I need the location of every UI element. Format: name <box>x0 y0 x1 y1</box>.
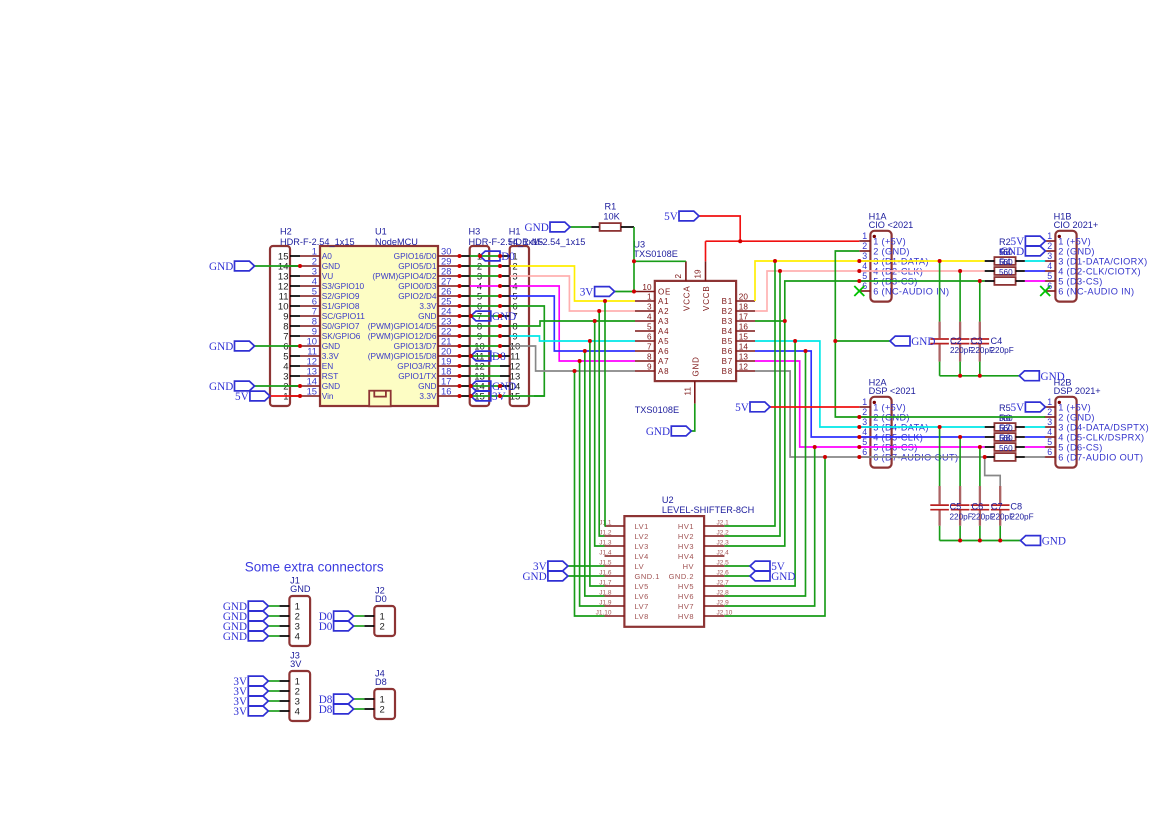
svg-text:GND.1: GND.1 <box>635 572 660 581</box>
svg-text:560: 560 <box>999 258 1013 267</box>
wire tap D2 to J2.2 <box>724 271 780 536</box>
power label 3V U2 <box>533 561 568 573</box>
svg-text:CIO <2021: CIO <2021 <box>869 220 914 230</box>
wire net D2 pink <box>510 276 635 311</box>
svg-text:7: 7 <box>647 343 652 352</box>
svg-text:3.3V: 3.3V <box>419 391 437 401</box>
svg-text:HV6: HV6 <box>678 592 694 601</box>
svg-text:GND: GND <box>418 381 436 391</box>
svg-text:3V: 3V <box>233 706 247 718</box>
svg-text:GPIO16/D0: GPIO16/D0 <box>394 251 437 261</box>
svg-text:HDR-F-2.54_1x15: HDR-F-2.54_1x15 <box>280 237 355 247</box>
svg-text:4 (D2-CLK/CIOTX): 4 (D2-CLK/CIOTX) <box>1058 266 1141 276</box>
svg-text:NodeMCU: NodeMCU <box>375 237 418 247</box>
svg-text:560: 560 <box>999 268 1013 277</box>
wire 3V to OE <box>615 291 635 293</box>
IC U1 NodeMCU pin text <box>307 227 452 402</box>
wire tap D1 to J2.1 <box>724 261 775 526</box>
power label 5V H2B <box>1011 402 1046 414</box>
connector H3 body <box>460 246 490 406</box>
svg-text:10: 10 <box>642 283 652 292</box>
power label 5V H2A <box>735 402 770 414</box>
wire tap D4 to J2.7 <box>724 341 795 586</box>
svg-text:H1: H1 <box>509 227 521 237</box>
wire tap D6 to J2.9 <box>724 447 814 606</box>
svg-text:HV7: HV7 <box>678 602 694 611</box>
svg-text:S0/GPIO7: S0/GPIO7 <box>322 321 360 331</box>
wires R5-R8 leads <box>985 427 1025 457</box>
svg-text:5 (D6-CS): 5 (D6-CS) <box>1058 442 1103 452</box>
svg-text:2: 2 <box>1047 241 1052 251</box>
connector H2A text <box>862 377 958 462</box>
power label GND U3 <box>646 426 691 438</box>
svg-text:OE: OE <box>658 288 671 297</box>
svg-text:6 (NC-AUDIO IN): 6 (NC-AUDIO IN) <box>1058 286 1134 296</box>
svg-text:5V: 5V <box>735 402 749 414</box>
wire net D3 right green <box>755 281 985 321</box>
svg-text:D0: D0 <box>319 621 333 633</box>
power label 5V H2-1 <box>235 391 270 403</box>
connector H1 body <box>500 246 529 406</box>
svg-text:B2: B2 <box>722 307 733 316</box>
svg-text:GPIO2/D4: GPIO2/D4 <box>398 291 437 301</box>
svg-text:6 (D7-AUDIO OUT): 6 (D7-AUDIO OUT) <box>1058 452 1143 462</box>
wire tap A1 to J1.1 <box>604 301 607 526</box>
svg-text:C6: C6 <box>972 501 984 511</box>
connector H3 pin numbers <box>469 227 544 403</box>
labels 3V J3 <box>233 676 268 718</box>
connector H2 body <box>270 246 300 406</box>
svg-text:U3: U3 <box>633 240 645 250</box>
svg-text:C7: C7 <box>991 501 1003 511</box>
svg-text:EN: EN <box>322 361 334 371</box>
resistors R5 R6 R7 R8 bodies <box>994 423 1015 461</box>
svg-text:VU: VU <box>322 271 334 281</box>
wire net D1 yellow <box>510 266 635 301</box>
svg-text:LV2: LV2 <box>635 532 649 541</box>
wire net GND H1A to H2A <box>835 251 1045 417</box>
wire tap D5 to J2.8 <box>724 351 805 596</box>
svg-text:D8: D8 <box>375 677 387 687</box>
svg-text:14: 14 <box>739 343 749 352</box>
svg-text:GPIO3/RX: GPIO3/RX <box>397 361 437 371</box>
svg-text:HV: HV <box>683 562 694 571</box>
svg-text:TXS0108E: TXS0108E <box>633 249 677 259</box>
svg-text:J1.4: J1.4 <box>599 550 612 557</box>
wire net D1 right yellow <box>755 261 985 301</box>
svg-text:GND: GND <box>911 336 935 348</box>
svg-text:R5: R5 <box>999 403 1011 413</box>
svg-text:16: 16 <box>739 323 749 332</box>
svg-text:1: 1 <box>1047 231 1052 241</box>
wire net D4 right cyan <box>755 341 985 427</box>
svg-text:B8: B8 <box>722 367 733 376</box>
wire GND U2 <box>568 575 605 577</box>
svg-text:A8: A8 <box>658 367 669 376</box>
wires R2-R4 to H1B <box>1025 261 1045 281</box>
wires C5-C8 verticals <box>940 427 1001 541</box>
svg-text:15: 15 <box>739 333 749 342</box>
svg-text:C4: C4 <box>991 336 1003 346</box>
svg-text:560: 560 <box>999 424 1013 433</box>
svg-text:5: 5 <box>1047 437 1052 447</box>
labels D0 J2 <box>319 611 354 633</box>
wire net D5 green <box>510 321 635 326</box>
svg-text:10K: 10K <box>603 212 620 222</box>
title text <box>245 560 384 575</box>
connector J4 body <box>364 689 395 719</box>
connector H1B body <box>1044 231 1076 302</box>
resistors R2 R3 R4 labels <box>999 237 1013 277</box>
svg-text:A3: A3 <box>658 317 669 326</box>
svg-text:B6: B6 <box>722 347 733 356</box>
labels GND J1 <box>223 601 268 643</box>
wire GND rail C5-C8 <box>940 540 1021 542</box>
label GND H3 pin7 <box>471 311 516 323</box>
label 3V H3 pin15 <box>471 391 506 403</box>
svg-text:3V: 3V <box>290 659 302 669</box>
svg-text:16: 16 <box>441 386 451 397</box>
svg-text:C2: C2 <box>950 336 962 346</box>
wire tap A2 to J1.2 <box>599 311 604 536</box>
svg-text:4: 4 <box>862 261 867 271</box>
svg-text:GND: GND <box>209 381 233 393</box>
connector H1A text <box>862 211 949 296</box>
svg-text:C8: C8 <box>1010 501 1022 511</box>
svg-text:5V: 5V <box>664 211 678 223</box>
svg-text:CIO 2021+: CIO 2021+ <box>1054 220 1099 230</box>
wire GND U2 right <box>724 575 750 577</box>
svg-text:B4: B4 <box>722 327 733 336</box>
svg-text:Vin: Vin <box>322 391 334 401</box>
power label 3V OE <box>580 287 615 299</box>
svg-text:5 (D3-CS): 5 (D3-CS) <box>1058 276 1103 286</box>
svg-text:HV8: HV8 <box>678 612 694 621</box>
svg-text:J2.4: J2.4 <box>717 550 730 557</box>
svg-text:S2/GPIO9: S2/GPIO9 <box>322 291 360 301</box>
svg-text:2 (GND): 2 (GND) <box>1058 246 1095 256</box>
svg-text:VCCA: VCCA <box>683 286 692 311</box>
wire U3 GND pin11 <box>691 404 695 431</box>
svg-text:A7: A7 <box>658 357 669 366</box>
svg-text:5V: 5V <box>1011 402 1025 414</box>
svg-text:GND: GND <box>492 311 516 323</box>
svg-text:S3/GPIO10: S3/GPIO10 <box>322 281 365 291</box>
svg-text:GND: GND <box>1041 371 1065 383</box>
wire net 3V row15 <box>500 395 544 397</box>
svg-text:3: 3 <box>862 417 867 427</box>
power label GND H2-14 <box>209 261 254 273</box>
svg-text:560: 560 <box>999 414 1013 423</box>
svg-text:220pF: 220pF <box>950 513 973 522</box>
svg-text:9: 9 <box>647 363 652 372</box>
svg-text:HV3: HV3 <box>678 542 694 551</box>
wires J2 <box>354 616 365 626</box>
svg-text:GND: GND <box>290 584 311 594</box>
svg-text:S1/GPIO8: S1/GPIO8 <box>322 301 360 311</box>
svg-text:B7: B7 <box>722 357 733 366</box>
svg-text:18: 18 <box>739 303 749 312</box>
svg-text:A6: A6 <box>658 347 669 356</box>
svg-text:GND: GND <box>322 261 340 271</box>
IC U2 LEVEL-SHIFTER-8CH pin text <box>596 495 755 621</box>
svg-text:3.3V: 3.3V <box>419 301 437 311</box>
wire tap A5 to J1.7 <box>590 341 605 586</box>
svg-text:1 (+5V): 1 (+5V) <box>873 236 906 246</box>
svg-text:LEVEL-SHIFTER-8CH: LEVEL-SHIFTER-8CH <box>662 505 754 515</box>
label D8 H3 pin11 <box>471 351 506 363</box>
svg-text:DSP 2021+: DSP 2021+ <box>1054 386 1101 396</box>
svg-text:LV7: LV7 <box>635 602 649 611</box>
label D0 H3 pin1 <box>480 251 515 263</box>
svg-text:GND: GND <box>692 356 701 376</box>
svg-text:SC/GPIO11: SC/GPIO11 <box>322 311 366 321</box>
svg-text:4: 4 <box>295 631 300 642</box>
svg-text:HV5: HV5 <box>678 582 694 591</box>
svg-text:DSP <2021: DSP <2021 <box>869 386 916 396</box>
svg-text:LV8: LV8 <box>635 612 649 621</box>
svg-text:2: 2 <box>674 274 683 279</box>
svg-text:GND: GND <box>209 261 233 273</box>
wire net D7 right gray <box>755 371 985 457</box>
svg-text:4: 4 <box>295 706 300 717</box>
svg-text:GND: GND <box>522 571 546 583</box>
junction dots <box>298 239 1002 542</box>
power label GND rail C5-C8 <box>1021 536 1066 548</box>
svg-text:3: 3 <box>1047 251 1052 261</box>
svg-text:5: 5 <box>862 437 867 447</box>
svg-text:12: 12 <box>739 363 749 372</box>
IC U1 NodeMCU body <box>300 246 460 406</box>
svg-text:6: 6 <box>647 333 652 342</box>
connector H2 pin numbers <box>278 227 355 403</box>
svg-text:8: 8 <box>647 353 652 362</box>
power label GND H2-6 <box>209 341 254 353</box>
svg-text:GND: GND <box>322 381 340 391</box>
svg-text:H3: H3 <box>469 227 481 237</box>
svg-text:GND.2: GND.2 <box>669 572 694 581</box>
resistor R1 labels <box>603 202 620 222</box>
svg-text:TXS0108E: TXS0108E <box>635 405 679 415</box>
svg-text:U2: U2 <box>662 495 674 505</box>
svg-text:B1: B1 <box>722 297 733 306</box>
power label 5V U2 right <box>750 561 785 573</box>
svg-text:2: 2 <box>1047 407 1052 417</box>
svg-text:GND: GND <box>1000 246 1024 258</box>
svg-text:GND: GND <box>223 631 247 643</box>
svg-text:GND: GND <box>322 341 340 351</box>
wire GND H2 pin6 <box>255 345 301 347</box>
svg-text:LV4: LV4 <box>635 552 649 561</box>
svg-text:6: 6 <box>862 447 867 457</box>
svg-text:2: 2 <box>862 241 867 251</box>
svg-text:GPIO5/D1: GPIO5/D1 <box>398 261 437 271</box>
svg-text:3V: 3V <box>580 287 594 299</box>
svg-text:560: 560 <box>999 444 1013 453</box>
svg-text:4: 4 <box>862 427 867 437</box>
wire tap D3 to J2.3 <box>724 321 784 546</box>
svg-text:19: 19 <box>694 269 703 279</box>
svg-text:1: 1 <box>862 397 867 407</box>
svg-text:5: 5 <box>862 271 867 281</box>
connector J1 body <box>279 596 310 646</box>
svg-text:GND: GND <box>525 222 549 234</box>
power label GND H1B <box>1000 246 1045 258</box>
svg-text:2 (GND): 2 (GND) <box>1058 412 1095 422</box>
connector J2 text <box>375 586 387 633</box>
svg-text:5V: 5V <box>235 391 249 403</box>
wire GND to R1 <box>570 226 599 228</box>
wire net D7 gray <box>510 346 635 371</box>
svg-text:560: 560 <box>999 434 1013 443</box>
svg-text:4: 4 <box>1047 261 1052 271</box>
svg-text:1: 1 <box>1047 397 1052 407</box>
capacitors C5 C6 C7 C8 bodies <box>930 486 1009 526</box>
svg-text:1: 1 <box>283 391 288 402</box>
svg-text:3: 3 <box>1047 417 1052 427</box>
wire net D4 blue <box>510 296 635 351</box>
svg-text:11: 11 <box>684 387 693 396</box>
wires J1 <box>268 606 279 636</box>
svg-text:15: 15 <box>307 386 317 397</box>
svg-text:LV5: LV5 <box>635 582 649 591</box>
power label GND H2-2 <box>209 381 254 393</box>
svg-text:HDR-M-2.54_1x15: HDR-M-2.54_1x15 <box>509 237 586 247</box>
connector H1A body <box>859 231 891 302</box>
svg-text:4: 4 <box>647 313 652 322</box>
wire VCCA OE net <box>634 227 686 292</box>
wire tap A8 to J1.10 <box>575 371 605 616</box>
wire net D5 right blue <box>755 351 985 437</box>
connector H2B text <box>1047 377 1149 462</box>
svg-text:Some extra connectors: Some extra connectors <box>245 560 384 575</box>
svg-text:3: 3 <box>647 303 652 312</box>
svg-text:20: 20 <box>739 293 749 302</box>
wire 3V U2 <box>568 565 605 567</box>
connector H2A body <box>859 397 891 468</box>
svg-text:5: 5 <box>647 323 652 332</box>
svg-text:220pF: 220pF <box>950 346 973 355</box>
wire 5V top feed <box>699 216 859 261</box>
wire 5V H2A <box>770 406 859 408</box>
svg-text:GND: GND <box>771 571 795 583</box>
svg-text:GPIO0/D3: GPIO0/D3 <box>398 281 437 291</box>
svg-text:5: 5 <box>1047 271 1052 281</box>
connector J2 body <box>364 606 395 636</box>
svg-text:(PWM)GPIO14/D5: (PWM)GPIO14/D5 <box>368 321 437 331</box>
wires R5-R8 to H2B <box>1025 427 1045 457</box>
svg-text:3 (D4-DATA/DSPTX): 3 (D4-DATA/DSPTX) <box>1058 422 1149 432</box>
wire GND rail C2-C4 <box>940 375 1020 377</box>
svg-text:3 (D1-DATA/CIORX): 3 (D1-DATA/CIORX) <box>1058 256 1147 266</box>
svg-text:1 (+5V): 1 (+5V) <box>1058 402 1091 412</box>
svg-text:4 (D5-CLK/DSPRX): 4 (D5-CLK/DSPRX) <box>1058 432 1144 442</box>
capacitors C5 C6 C7 C8 labels <box>950 501 1034 521</box>
capacitors C2 C3 C4 bodies <box>930 322 989 362</box>
svg-text:VCCB: VCCB <box>702 286 711 311</box>
svg-text:A0: A0 <box>322 251 333 261</box>
svg-text:LV1: LV1 <box>635 522 649 531</box>
power label 5V H1B <box>1011 236 1046 248</box>
wire net D3 magenta <box>510 286 635 361</box>
connector J1 text <box>290 576 311 643</box>
IC U3 TXS0108E pin text <box>633 240 748 416</box>
svg-text:GPIO13/D7: GPIO13/D7 <box>394 341 437 351</box>
power label 5V top <box>664 211 699 223</box>
svg-text:GPIO1/TX: GPIO1/TX <box>398 371 437 381</box>
power label GND U2 <box>522 571 567 583</box>
svg-text:17: 17 <box>739 313 749 322</box>
power label GND rail C2-C4 <box>1019 371 1064 383</box>
svg-text:H2: H2 <box>280 227 292 237</box>
svg-text:B3: B3 <box>722 317 733 326</box>
svg-text:GND: GND <box>418 311 436 321</box>
svg-text:SK/GPIO6: SK/GPIO6 <box>322 331 361 341</box>
connector H1B text <box>1047 211 1147 296</box>
wires R2-R4 leads <box>985 261 1025 281</box>
svg-text:LV6: LV6 <box>635 592 649 601</box>
power label GND mid <box>890 336 935 348</box>
svg-text:4: 4 <box>1047 427 1052 437</box>
connector H1 pin numbers <box>509 227 586 403</box>
svg-text:2: 2 <box>380 621 385 632</box>
wire tap A6 to J1.8 <box>585 351 605 596</box>
wire R1 to VCCA node <box>621 226 634 228</box>
svg-text:R1: R1 <box>605 202 617 212</box>
wire GND H2 pin14 <box>255 265 301 267</box>
svg-text:2: 2 <box>862 407 867 417</box>
wire 5V H2 pin1 <box>270 395 300 397</box>
svg-text:220pF: 220pF <box>991 346 1014 355</box>
svg-text:C5: C5 <box>950 501 962 511</box>
resistors R2 R3 R4 bodies <box>994 257 1015 285</box>
svg-text:6: 6 <box>1047 447 1052 457</box>
svg-text:A2: A2 <box>658 307 669 316</box>
svg-text:(PWM)GPIO12/D6: (PWM)GPIO12/D6 <box>368 331 437 341</box>
wires J3 <box>268 681 279 711</box>
power label GND U2 right <box>750 571 795 583</box>
wire net D6 right magenta <box>755 361 985 447</box>
svg-text:D0: D0 <box>375 594 387 604</box>
svg-text:GND: GND <box>1042 536 1066 548</box>
svg-text:1 (+5V): 1 (+5V) <box>873 402 906 412</box>
svg-text:A5: A5 <box>658 337 669 346</box>
capacitors C2 C3 C4 labels <box>950 336 1014 355</box>
svg-text:C3: C3 <box>971 336 983 346</box>
wire net D6 cyan <box>510 336 635 341</box>
svg-text:D0: D0 <box>501 251 515 263</box>
svg-text:LV3: LV3 <box>635 542 649 551</box>
svg-text:LV: LV <box>635 562 645 571</box>
IC U3 TXS0108E body <box>635 261 755 403</box>
connector J3 text <box>290 651 302 718</box>
svg-text:(PWM)GPIO15/D8: (PWM)GPIO15/D8 <box>368 351 437 361</box>
wires C2-C4 verticals <box>940 261 980 376</box>
svg-text:2 (GND): 2 (GND) <box>873 246 910 256</box>
svg-text:2: 2 <box>380 704 385 715</box>
no-connect X H1A pin6 <box>854 286 864 296</box>
svg-text:A4: A4 <box>658 327 669 336</box>
wire 5V U2 right <box>724 565 750 567</box>
svg-text:HV4: HV4 <box>678 552 694 561</box>
wire tap A7 to J1.9 <box>580 361 605 606</box>
svg-text:6 (NC-AUDIO IN): 6 (NC-AUDIO IN) <box>873 286 949 296</box>
wires J4 <box>354 699 365 709</box>
connector H2B body <box>1044 397 1076 468</box>
power label GND R1 <box>525 222 570 234</box>
connector J3 body <box>279 671 310 721</box>
wire GND H2 pin2 <box>255 385 301 387</box>
